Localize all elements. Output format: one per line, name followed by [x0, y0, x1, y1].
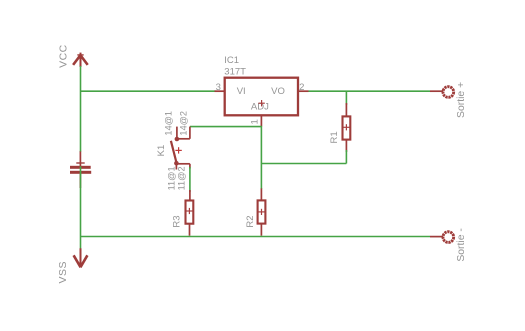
wire R1 to ADJ node	[261, 163, 346, 165]
resistor R3 pin stubs	[189, 190, 191, 201]
IC1 pin 2 stub	[298, 90, 309, 92]
IC1 pin 3 stub	[215, 90, 225, 92]
svg-text:R3: R3	[171, 215, 182, 227]
relay contact K1	[171, 127, 190, 170]
svg-text:1: 1	[249, 119, 260, 124]
svg-text:VO: VO	[271, 86, 285, 97]
svg-text:3: 3	[216, 82, 221, 93]
supply VSS	[74, 248, 88, 267]
svg-text:Sortie +: Sortie +	[456, 82, 467, 118]
svg-text:VCC: VCC	[58, 44, 70, 68]
svg-text:Sortie -: Sortie -	[456, 228, 467, 262]
svg-text:VSS: VSS	[57, 261, 69, 284]
wire K1 to R3	[189, 167, 191, 192]
svg-text:R1: R1	[329, 131, 340, 143]
wire bottom rail VSS	[81, 236, 431, 238]
wire R1 bottom	[345, 150, 347, 164]
wire ADJ to K1	[190, 126, 262, 128]
IC IC1 317T regulator body	[225, 78, 298, 116]
svg-text:2: 2	[299, 82, 304, 93]
resistor R1 pin stubs	[345, 103, 347, 116]
capacitor C1 (polarized)	[70, 151, 91, 188]
IC1 pin 1 stub (ADJ)	[260, 115, 262, 126]
svg-text:11@1: 11@1	[167, 166, 177, 190]
wire capacitor to VSS rail	[80, 166, 82, 249]
svg-text:R2: R2	[245, 215, 256, 227]
wire IC1 pin2 to Sortie+	[309, 90, 431, 92]
resistor R2	[258, 200, 266, 223]
svg-text:IC1: IC1	[224, 55, 239, 66]
wire top rail to R1	[345, 91, 347, 105]
wire VCC to IC1 pin3	[81, 90, 216, 92]
svg-text:14@2: 14@2	[178, 111, 188, 136]
svg-text:VI: VI	[237, 86, 246, 97]
pad Sortie -	[430, 232, 454, 243]
svg-text:14@1: 14@1	[164, 111, 174, 136]
IC1 origin cross	[258, 100, 264, 106]
supply VCC	[73, 53, 88, 67]
svg-text:11@2: 11@2	[177, 166, 187, 190]
resistor R3	[186, 201, 194, 224]
resistor R1	[343, 116, 351, 139]
R2 origin cross	[258, 209, 264, 215]
resistor R2 pin stubs	[260, 188, 262, 200]
svg-text:317T: 317T	[224, 66, 246, 77]
wire ADJ vertical	[260, 126, 262, 189]
wire VCC to capacitor	[80, 66, 82, 152]
R1 origin cross	[343, 124, 349, 130]
pad Sortie +	[430, 87, 454, 98]
K1 origin cross	[175, 147, 181, 153]
R3 origin cross	[186, 208, 192, 214]
svg-text:K1: K1	[156, 145, 167, 157]
